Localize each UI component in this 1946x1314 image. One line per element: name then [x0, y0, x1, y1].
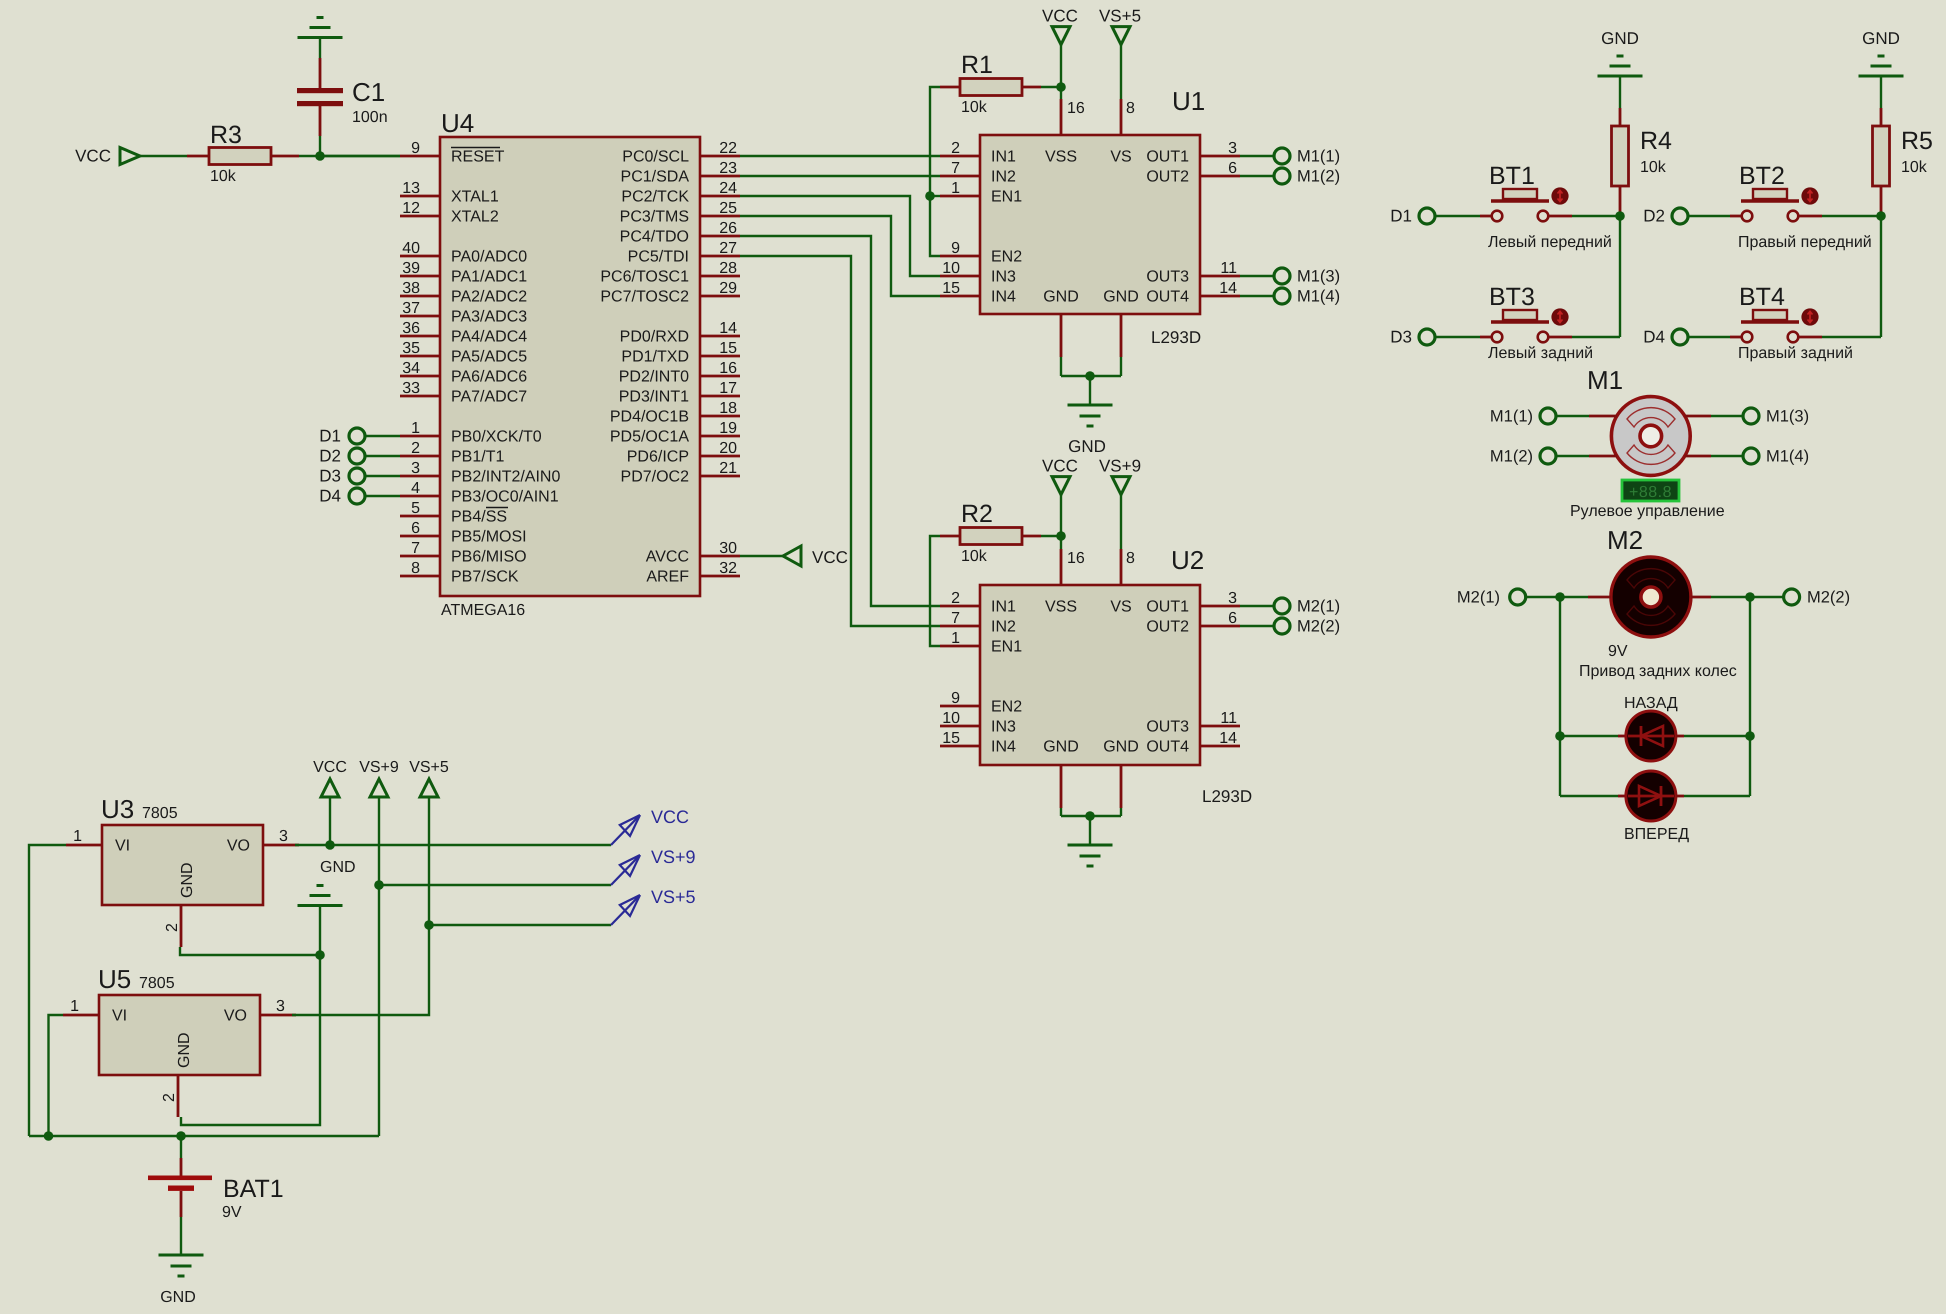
U4 pin 39 PA1/ADC1: [400, 260, 527, 286]
U2 pin 16 VSS: [1045, 549, 1085, 616]
svg-text:D3: D3: [319, 467, 341, 486]
wire R1 left to EN1/EN2: [930, 87, 940, 256]
svg-text:VS+5: VS+5: [651, 887, 696, 907]
U4 pin 40 PA0/ADC0: [400, 240, 527, 266]
ground: [298, 18, 343, 38]
svg-text:VCC: VCC: [1042, 7, 1078, 26]
ground below U2: [1068, 845, 1113, 866]
ground: [1859, 56, 1904, 76]
pushbutton BT3: [1480, 308, 1572, 342]
svg-text:27: 27: [719, 240, 737, 257]
battery BAT1: [148, 1136, 212, 1217]
svg-text:R3: R3: [210, 121, 242, 149]
svg-text:15: 15: [942, 280, 960, 297]
LED D-VPERED (ВПЕРЕД): [1560, 771, 1750, 821]
svg-text:34: 34: [402, 360, 420, 377]
svg-text:PD5/OC1A: PD5/OC1A: [610, 429, 689, 446]
junction U1 GND: [1085, 371, 1095, 381]
U4 pin 19 PD5/OC1A: [610, 420, 740, 446]
terminal M1(2): [1540, 448, 1556, 464]
svg-text:29: 29: [719, 280, 737, 297]
svg-text:EN1: EN1: [991, 189, 1022, 206]
U4 pin 33 PA7/ADC7: [400, 380, 527, 406]
wire VS+5 arrow down: [428, 797, 430, 925]
resistor R5: [1873, 108, 1890, 213]
svg-text:VS+9: VS+9: [359, 759, 399, 776]
svg-text:PB5/MOSI: PB5/MOSI: [451, 529, 527, 546]
U4 pin 18 PD4/OC1B: [610, 400, 740, 426]
U4 pin 27 PC5/TDI: [628, 240, 740, 266]
motor M1: [1611, 397, 1690, 476]
terminal M1(3): [1743, 408, 1759, 424]
LED D-NAZAD (НАЗАД): [1560, 711, 1750, 761]
svg-text:5: 5: [411, 500, 420, 517]
U4 pin 13 XTAL1: [400, 180, 499, 206]
U5 pin 1 VI: [63, 998, 127, 1025]
svg-text:VS: VS: [1110, 599, 1131, 616]
wire BT2 to net: [1822, 215, 1881, 217]
wire BAT1 to ground: [180, 1217, 182, 1255]
wire PC0 to U1 IN1: [740, 155, 940, 157]
svg-text:OUT3: OUT3: [1146, 269, 1189, 286]
svg-text:VCC: VCC: [313, 759, 347, 776]
junction U2 GND: [1085, 811, 1095, 821]
svg-text:U2: U2: [1171, 545, 1204, 575]
svg-text:VSS: VSS: [1045, 149, 1077, 166]
U2 pin 2 IN1: [940, 590, 1016, 616]
svg-text:18: 18: [719, 400, 737, 417]
wire right branch down: [1749, 597, 1751, 796]
terminal M2(1): [1274, 598, 1290, 614]
svg-text:16: 16: [1067, 550, 1085, 567]
wire U1 GND pins to ground: [1061, 357, 1121, 405]
svg-text:PA1/ADC1: PA1/ADC1: [451, 269, 527, 286]
wire VCC arrow down to U1 VSS: [1060, 45, 1062, 99]
U3 pin 1 VI: [66, 828, 130, 855]
svg-text:M1(3): M1(3): [1297, 268, 1340, 286]
U4 pin 14 PD0/RXD: [620, 320, 740, 346]
svg-text:VO: VO: [227, 838, 250, 855]
svg-text:PA6/ADC6: PA6/ADC6: [451, 369, 527, 386]
U2 pin 14 OUT4: [1146, 730, 1240, 756]
terminal M1(4): [1743, 448, 1759, 464]
svg-text:OUT1: OUT1: [1146, 599, 1189, 616]
svg-text:24: 24: [719, 180, 737, 197]
svg-text:VCC: VCC: [75, 147, 111, 166]
U4 pin 8 PB7/SCK: [400, 560, 519, 586]
svg-text:15: 15: [719, 340, 737, 357]
svg-text:PB7/SCK: PB7/SCK: [451, 569, 519, 586]
svg-text:M1(2): M1(2): [1297, 168, 1340, 186]
wire AVCC: [740, 555, 783, 557]
svg-text:R2: R2: [961, 500, 993, 528]
svg-text:35: 35: [402, 340, 420, 357]
U4 pin 38 PA2/ADC2: [400, 280, 527, 306]
svg-text:16: 16: [719, 360, 737, 377]
svg-text:GND: GND: [1103, 739, 1139, 756]
svg-text:26: 26: [719, 220, 737, 237]
svg-text:PD3/INT1: PD3/INT1: [619, 389, 689, 406]
svg-text:U3: U3: [101, 794, 134, 824]
U1 pin 8 VS: [1110, 99, 1135, 166]
wire to U1 EN1: [930, 195, 940, 197]
svg-text:VCC: VCC: [1042, 457, 1078, 476]
svg-text:GND: GND: [1862, 29, 1900, 48]
svg-text:PB4/SS: PB4/SS: [451, 509, 507, 526]
svg-text:M1(3): M1(3): [1766, 408, 1809, 426]
svg-text:OUT4: OUT4: [1146, 739, 1189, 756]
svg-text:4: 4: [411, 480, 420, 497]
junction LED1 right: [1745, 731, 1755, 741]
ground: [1598, 56, 1643, 76]
svg-text:PC5/TDI: PC5/TDI: [628, 249, 689, 266]
svg-text:10k: 10k: [961, 99, 988, 116]
svg-text:13: 13: [402, 180, 420, 197]
svg-text:M1(4): M1(4): [1297, 288, 1340, 306]
wire U5 VO up to VS+5 line: [292, 925, 429, 1015]
svg-text:9: 9: [411, 140, 420, 157]
svg-text:6: 6: [1228, 160, 1237, 177]
svg-text:14: 14: [1219, 280, 1237, 297]
wire ground node down and to U5 GND pin: [181, 955, 320, 1125]
U4 pin 25 PC3/TMS: [620, 200, 740, 226]
svg-text:17: 17: [719, 380, 737, 397]
svg-text:EN2: EN2: [991, 699, 1022, 716]
svg-text:R4: R4: [1640, 127, 1672, 155]
M1 actuator display +88.8: [1622, 480, 1679, 501]
ground below BAT1: [159, 1255, 204, 1276]
svg-text:D2: D2: [319, 447, 341, 466]
svg-text:BT2: BT2: [1739, 162, 1785, 190]
svg-text:30: 30: [719, 540, 737, 557]
svg-text:L293D: L293D: [1151, 328, 1201, 347]
svg-text:7: 7: [951, 610, 960, 627]
svg-text:IN2: IN2: [991, 169, 1016, 186]
U2 pin 9 EN2: [940, 690, 1022, 716]
U4 pin 5 PB4/SS: [400, 500, 508, 526]
svg-text:EN1: EN1: [991, 639, 1022, 656]
svg-text:PC7/TOSC2: PC7/TOSC2: [600, 289, 689, 306]
U5 pin 3 VO: [224, 998, 296, 1025]
wire D1 to BT1: [1435, 215, 1480, 217]
svg-text:38: 38: [402, 280, 420, 297]
svg-text:14: 14: [719, 320, 737, 337]
svg-text:7805: 7805: [139, 975, 175, 992]
wire BT1 to net: [1572, 215, 1620, 217]
svg-text:PC4/TDO: PC4/TDO: [620, 229, 689, 246]
U1 pin 7 IN2: [940, 160, 1016, 186]
svg-text:AREF: AREF: [646, 569, 689, 586]
U4 pin 6 PB5/MOSI: [400, 520, 527, 546]
wire OUT to M1(1): [1240, 155, 1274, 157]
node A junction R3/C1/RESET: [315, 151, 325, 161]
svg-text:PC3/TMS: PC3/TMS: [620, 209, 689, 226]
wire BT4 to net: [1822, 336, 1881, 338]
junction EN1: [925, 191, 935, 201]
wire OUT to M1(4): [1240, 295, 1274, 297]
svg-text:8: 8: [411, 560, 420, 577]
junction VCC line: [325, 840, 335, 850]
svg-text:21: 21: [719, 460, 737, 477]
wire OUT to M1(2): [1240, 175, 1274, 177]
pin M1 motor left: [1589, 455, 1617, 458]
U4 pin 20 PD6/ICP: [627, 440, 740, 466]
svg-text:M2(1): M2(1): [1297, 598, 1340, 616]
U1 pin 10 IN3: [940, 260, 1016, 286]
wire ground to R4: [1619, 77, 1621, 108]
svg-text:U1: U1: [1172, 86, 1205, 116]
svg-text:PB2/INT2/AIN0: PB2/INT2/AIN0: [451, 469, 560, 486]
wire M1 right: [1711, 455, 1743, 457]
svg-text:3: 3: [411, 460, 420, 477]
driver U2 L293D body: [980, 585, 1200, 765]
svg-text:D1: D1: [1390, 207, 1412, 226]
U1 pin 6 OUT2: [1146, 160, 1240, 186]
wire OUT to M2(1): [1240, 605, 1274, 607]
terminal M1(2): [1274, 168, 1290, 184]
terminal D2: [1672, 208, 1688, 224]
wire R3 to node A: [299, 155, 400, 157]
svg-text:+88.8: +88.8: [1629, 484, 1672, 501]
wire VCC arrow to U2 VSS: [1060, 495, 1062, 549]
svg-text:3: 3: [276, 998, 285, 1015]
U4 pin 32 AREF: [646, 560, 740, 586]
svg-text:12: 12: [402, 200, 420, 217]
svg-text:23: 23: [719, 160, 737, 177]
svg-text:Правый передний: Правый передний: [1738, 234, 1872, 251]
U4 pin 15 PD1/TXD: [621, 340, 740, 366]
svg-text:100n: 100n: [352, 109, 388, 126]
U4 pin 2 PB1/T1: [400, 440, 504, 466]
junction U3 GND / ground / down wire: [315, 950, 325, 960]
svg-text:BT4: BT4: [1739, 283, 1785, 311]
terminal D4: [1672, 329, 1688, 345]
svg-text:25: 25: [719, 200, 737, 217]
U3 pin 2 GND: [164, 905, 181, 947]
pin M1 motor right: [1685, 415, 1711, 418]
svg-text:28: 28: [719, 260, 737, 277]
svg-text:PA5/ADC5: PA5/ADC5: [451, 349, 527, 366]
svg-text:7: 7: [951, 160, 960, 177]
svg-text:BT3: BT3: [1489, 283, 1535, 311]
svg-text:10: 10: [942, 710, 960, 727]
svg-text:1: 1: [951, 180, 960, 197]
svg-text:M1: M1: [1587, 365, 1623, 395]
svg-text:1: 1: [73, 828, 82, 845]
wire R2 to VCC net: [1041, 535, 1061, 537]
U2 pin 11 OUT3: [1146, 710, 1240, 736]
U4 pin 3 PB2/INT2/AIN0: [400, 460, 560, 486]
U4 pin 28 PC6/TOSC1: [600, 260, 740, 286]
U1 pin 1 EN1: [940, 180, 1022, 206]
resistor R4: [1612, 108, 1629, 213]
svg-text:EN2: EN2: [991, 249, 1022, 266]
power terminal VS+9 above U2: [1112, 477, 1130, 495]
wire R1 right to VCC net: [1041, 86, 1061, 88]
terminal M1(1): [1540, 408, 1556, 424]
svg-text:M2(1): M2(1): [1457, 589, 1500, 607]
svg-text:PC2/TCK: PC2/TCK: [621, 189, 689, 206]
svg-text:2: 2: [161, 1093, 178, 1102]
power terminal VS+5 (up arrow): [420, 779, 438, 797]
terminal D3: [349, 468, 365, 484]
svg-text:M2(2): M2(2): [1297, 618, 1340, 636]
svg-text:VI: VI: [115, 838, 130, 855]
wire M1 right: [1711, 415, 1743, 417]
svg-text:VS+5: VS+5: [1099, 7, 1141, 26]
svg-text:M2: M2: [1607, 525, 1643, 555]
svg-text:Левый передний: Левый передний: [1488, 234, 1612, 251]
junction R1/VCC: [1056, 82, 1066, 92]
U2 pin 1 EN1: [940, 630, 1022, 656]
svg-text:37: 37: [402, 300, 420, 317]
microcontroller U4 ATMEGA16 body: [440, 137, 700, 596]
output terminal VS+5 (blue flag): [611, 895, 640, 925]
junction M2 right: [1745, 592, 1755, 602]
svg-text:8: 8: [1126, 100, 1135, 117]
wire M1 left: [1556, 455, 1589, 457]
svg-text:IN3: IN3: [991, 719, 1016, 736]
wire VS+5 arrow down to U1 VS: [1120, 45, 1122, 99]
svg-text:PC6/TOSC1: PC6/TOSC1: [600, 269, 689, 286]
svg-text:PA2/ADC2: PA2/ADC2: [451, 289, 527, 306]
U4 pin 1 PB0/XCK/T0: [400, 420, 542, 446]
wire VS+9 down to battery+: [378, 885, 380, 1136]
svg-text:GND: GND: [1043, 739, 1079, 756]
svg-text:10k: 10k: [1901, 159, 1928, 176]
terminal M1(3): [1274, 268, 1290, 284]
wire D4 to U4: [366, 495, 401, 497]
U2 pin 10 IN3: [940, 710, 1016, 736]
svg-text:M1(4): M1(4): [1766, 448, 1809, 466]
svg-text:IN3: IN3: [991, 269, 1016, 286]
svg-text:L293D: L293D: [1202, 787, 1252, 806]
U1 pin 2 IN1: [940, 140, 1016, 166]
wire PC5 to U2 IN2: [740, 256, 940, 626]
svg-text:VS+9: VS+9: [651, 847, 696, 867]
resistor R1: [940, 79, 1041, 96]
svg-text:IN4: IN4: [991, 289, 1016, 306]
svg-text:IN4: IN4: [991, 739, 1016, 756]
U3 pin 3 VO: [227, 828, 299, 855]
svg-text:PB3/OC0/AIN1: PB3/OC0/AIN1: [451, 489, 559, 506]
terminal M2(1): [1510, 589, 1526, 605]
svg-text:22: 22: [719, 140, 737, 157]
wire down to BT4 row: [1880, 216, 1882, 337]
wire PC2 to U1 IN3: [740, 196, 940, 276]
terminal D1: [1419, 208, 1435, 224]
svg-text:40: 40: [402, 240, 420, 257]
svg-text:11: 11: [1220, 260, 1237, 277]
wire D3 to U4: [366, 475, 401, 477]
power terminal VCC above U2: [1052, 477, 1070, 495]
svg-text:39: 39: [402, 260, 420, 277]
svg-text:16: 16: [1067, 100, 1085, 117]
svg-text:D4: D4: [319, 487, 341, 506]
svg-text:XTAL1: XTAL1: [451, 189, 499, 206]
pin M1 motor right: [1685, 455, 1711, 458]
svg-text:7805: 7805: [142, 805, 178, 822]
U2 pin 7 IN2: [940, 610, 1016, 636]
wire down to BT3 row: [1619, 216, 1621, 337]
svg-text:1: 1: [70, 998, 79, 1015]
U4 pin 29 PC7/TOSC2: [600, 280, 740, 306]
svg-text:OUT2: OUT2: [1146, 619, 1189, 636]
U4 pin 24 PC2/TCK: [621, 180, 740, 206]
svg-text:ATMEGA16: ATMEGA16: [441, 602, 525, 619]
svg-text:7: 7: [411, 540, 420, 557]
motor M2: [1611, 557, 1691, 637]
svg-text:11: 11: [1220, 710, 1237, 727]
wire D1 to U4: [366, 435, 401, 437]
svg-text:IN1: IN1: [991, 599, 1016, 616]
svg-text:2: 2: [411, 440, 420, 457]
terminal M2(2): [1274, 618, 1290, 634]
wire VCC output line: [295, 844, 611, 846]
terminal D3: [1419, 329, 1435, 345]
svg-text:VS+9: VS+9: [1099, 457, 1141, 476]
wire left branch down: [1559, 597, 1561, 796]
svg-text:GND: GND: [160, 1289, 196, 1306]
svg-text:VO: VO: [224, 1008, 247, 1025]
junction R4/BT1: [1615, 211, 1625, 221]
wire BT3 to net: [1572, 336, 1620, 338]
U1 pin 14 OUT4: [1146, 280, 1240, 306]
U1 pin 9 EN2: [940, 240, 1022, 266]
svg-text:U5: U5: [98, 964, 131, 994]
terminal M1(4): [1274, 288, 1290, 304]
svg-text:PB1/T1: PB1/T1: [451, 449, 504, 466]
svg-text:D2: D2: [1643, 207, 1665, 226]
junction BAT1 / battery+: [176, 1131, 186, 1141]
svg-text:3: 3: [279, 828, 288, 845]
svg-text:Рулевое управление: Рулевое управление: [1570, 503, 1725, 520]
svg-text:PA4/ADC4: PA4/ADC4: [451, 329, 527, 346]
U4 pin 12 XTAL2: [400, 200, 499, 226]
wire VS+5 output line: [429, 924, 611, 926]
U4 pin 36 PA4/ADC4: [400, 320, 527, 346]
resistor R2: [940, 528, 1041, 545]
U2 GND pin right: [1103, 739, 1139, 809]
svg-text:10: 10: [942, 260, 960, 277]
svg-text:GND: GND: [179, 862, 196, 898]
svg-text:PD0/RXD: PD0/RXD: [620, 329, 689, 346]
ground above node (mid-left): [298, 886, 343, 906]
svg-text:8: 8: [1126, 550, 1135, 567]
output terminal VCC (blue flag): [611, 815, 640, 845]
svg-text:Правый задний: Правый задний: [1738, 345, 1853, 362]
wire U2 GND pins to ground: [1061, 808, 1121, 845]
svg-text:10k: 10k: [210, 168, 237, 185]
svg-text:Левый задний: Левый задний: [1488, 345, 1593, 362]
wire D4 to BT4: [1688, 336, 1730, 338]
junction U5 VI / battery+: [44, 1131, 54, 1141]
pushbutton BT2: [1730, 187, 1822, 221]
svg-text:14: 14: [1219, 730, 1237, 747]
junction VS+5 line: [424, 920, 434, 930]
svg-text:AVCC: AVCC: [646, 549, 689, 566]
svg-text:3: 3: [1228, 140, 1237, 157]
U4 pin 26 PC4/TDO: [620, 220, 740, 246]
svg-text:D1: D1: [319, 427, 341, 446]
wire ground to R5: [1880, 77, 1882, 108]
regulator U5 7805 body: [99, 995, 260, 1075]
wire VS+9 arrow down: [378, 797, 380, 885]
wire D3 to BT3: [1435, 336, 1480, 338]
svg-text:PD7/OC2: PD7/OC2: [621, 469, 690, 486]
svg-text:PB0/XCK/T0: PB0/XCK/T0: [451, 429, 542, 446]
terminal M2(2): [1784, 589, 1800, 605]
